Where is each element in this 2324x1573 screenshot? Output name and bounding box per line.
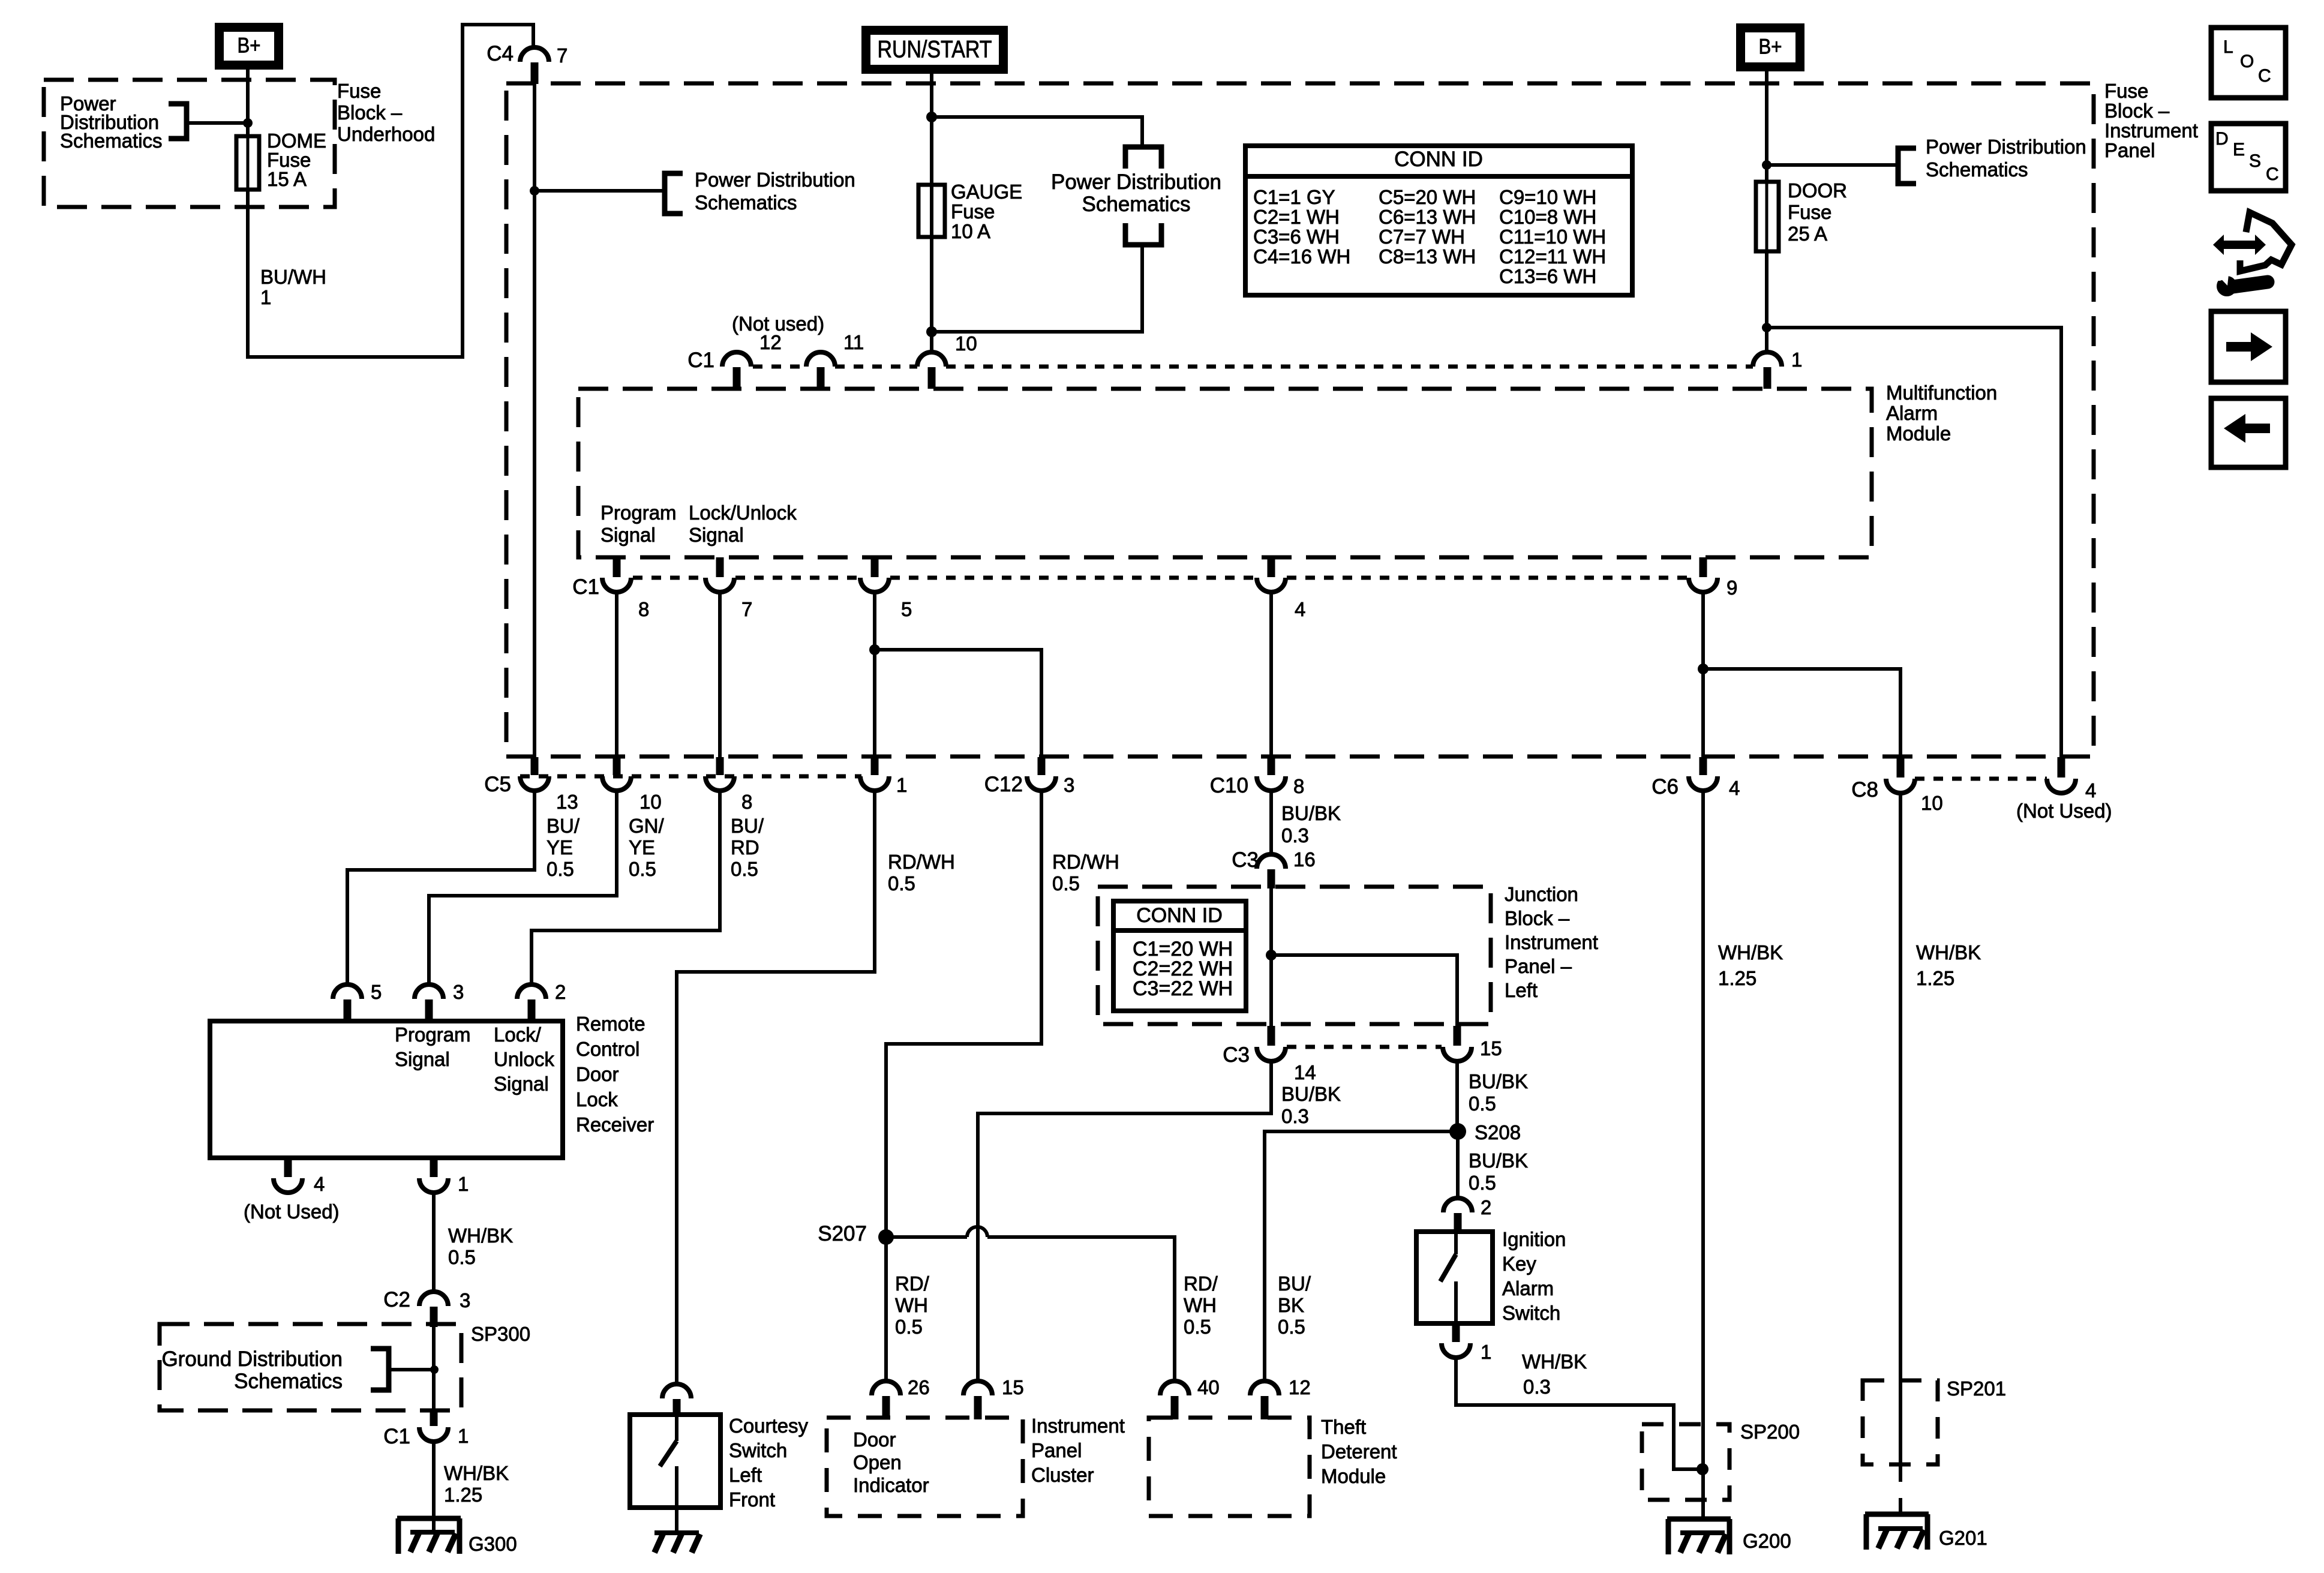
svg-text:Fuse: Fuse: [337, 80, 381, 102]
svg-text:Schematics: Schematics: [234, 1370, 343, 1393]
wire loop bottom: [932, 245, 1142, 332]
fuse block instrument panel dashed box: [506, 83, 2094, 757]
svg-text:Left: Left: [1505, 979, 1538, 1001]
svg-text:2: 2: [1481, 1196, 1491, 1218]
svg-text:12: 12: [759, 331, 782, 353]
remote control door lock receiver box: [210, 1021, 563, 1158]
svg-text:15 A: 15 A: [267, 168, 307, 190]
svg-text:Signal: Signal: [600, 524, 656, 546]
wire S208 branch to theft pin 12: [1265, 1131, 1458, 1381]
svg-text:C2: C2: [383, 1288, 410, 1311]
ground (courtesy switch): [654, 1530, 699, 1535]
connector pin 4 not used: [2058, 757, 2065, 778]
ground G201: [1865, 1512, 1929, 1517]
wire C5 pin10 to receiver pin 3: [429, 791, 617, 985]
svg-text:BU/WH: BU/WH: [260, 266, 326, 288]
svg-text:Alarm: Alarm: [1886, 402, 1938, 424]
svg-text:WH: WH: [1184, 1294, 1217, 1316]
wire C5 pin8 to receiver pin 2: [532, 791, 720, 985]
svg-text:14: 14: [1294, 1061, 1316, 1083]
svg-text:1: 1: [458, 1425, 469, 1447]
svg-text:13: 13: [556, 791, 578, 813]
svg-text:C8=13 WH: C8=13 WH: [1379, 245, 1476, 268]
module pin 9: [1700, 557, 1707, 577]
svg-text:Remote: Remote: [576, 1013, 645, 1035]
bracket ground distribution: [371, 1349, 389, 1390]
svg-text:1: 1: [1791, 349, 1802, 371]
wire C6 pin4 to G200: [1701, 791, 1705, 1519]
wire DOOR fuse to pin 1: [1765, 251, 1768, 353]
multifunction alarm module dashed box: [578, 389, 1872, 557]
conn id table (fuse block): [1245, 146, 1632, 295]
svg-text:WH/BK: WH/BK: [1522, 1350, 1587, 1373]
svg-text:C3: C3: [1223, 1043, 1250, 1067]
svg-text:26: 26: [908, 1376, 930, 1398]
svg-text:G201: G201: [1939, 1527, 1987, 1549]
svg-text:1.25: 1.25: [1718, 967, 1756, 989]
svg-text:BU/: BU/: [1278, 1272, 1311, 1295]
junction block dashed box: [1098, 887, 1491, 1024]
svg-text:C5: C5: [484, 773, 511, 796]
wire through SP300: [432, 1327, 436, 1409]
wire C8 pin10 to G201: [1899, 793, 1902, 1482]
svg-text:RD/: RD/: [895, 1272, 930, 1295]
wire DOME fuse to connector C4 pin 7: [248, 25, 533, 357]
icon box LOC: [2211, 28, 2286, 98]
svg-text:C11=10 WH: C11=10 WH: [1499, 226, 1606, 248]
svg-text:CONN ID: CONN ID: [1136, 904, 1223, 927]
svg-text:5: 5: [901, 598, 912, 620]
wire C10 pin8 down to C3 pin16: [1269, 791, 1273, 855]
svg-text:0.5: 0.5: [895, 1316, 923, 1338]
junction dot SP300: [430, 1365, 439, 1374]
svg-text:BU/BK: BU/BK: [1469, 1070, 1528, 1092]
svg-text:0.5: 0.5: [629, 858, 656, 880]
svg-text:BK: BK: [1278, 1294, 1304, 1316]
junction dot on B+ feed: [243, 118, 253, 128]
svg-text:1: 1: [896, 774, 907, 796]
svg-text:0.5: 0.5: [1278, 1316, 1305, 1338]
bracket power distribution (right): [1898, 148, 1916, 184]
connector pin 15 (junction block): [1454, 1026, 1461, 1046]
theft pin 40: [1160, 1381, 1189, 1395]
svg-text:0.5: 0.5: [547, 858, 574, 880]
svg-text:2: 2: [555, 981, 566, 1003]
svg-text:Block –: Block –: [2104, 100, 2170, 122]
ignition switch contacts: [1454, 1232, 1458, 1254]
connector C12 pin 3: [1038, 757, 1046, 775]
svg-text:(Not Used): (Not Used): [2016, 800, 2112, 822]
svg-text:Signal: Signal: [395, 1048, 450, 1070]
svg-text:Left: Left: [729, 1464, 762, 1486]
svg-text:25 A: 25 A: [1788, 223, 1827, 245]
junction dot in junction block: [1266, 950, 1277, 960]
wire C12 pin3 to S207: [886, 791, 1041, 1381]
svg-text:Schematics: Schematics: [1082, 193, 1191, 216]
svg-text:RD/: RD/: [1184, 1272, 1218, 1295]
svg-text:Alarm: Alarm: [1502, 1277, 1554, 1299]
svg-text:GAUGE: GAUGE: [951, 181, 1022, 203]
wire S207 to theft pin 40 (with hop): [886, 1235, 967, 1239]
svg-text:WH: WH: [895, 1294, 928, 1316]
svg-text:Module: Module: [1321, 1465, 1386, 1487]
junction dot DOOR branch: [1762, 323, 1771, 332]
svg-text:Switch: Switch: [729, 1439, 787, 1461]
svg-text:C8: C8: [1851, 778, 1878, 801]
svg-text:0.3: 0.3: [1281, 824, 1309, 846]
connector C4 pin 7 arc: [520, 47, 549, 62]
svg-text:Lock/: Lock/: [494, 1023, 542, 1046]
svg-text:SP201: SP201: [1947, 1377, 2006, 1400]
connector C1 pin 11 arc: [806, 352, 835, 367]
dotted connector line C1 row: [753, 365, 806, 369]
svg-text:0.5: 0.5: [1052, 872, 1080, 894]
svg-text:C1: C1: [572, 575, 599, 599]
svg-text:S208: S208: [1475, 1121, 1521, 1143]
svg-text:D: D: [2215, 129, 2229, 149]
receiver pin 1: [430, 1158, 438, 1177]
svg-text:RD: RD: [731, 836, 759, 858]
svg-text:10: 10: [955, 332, 977, 355]
svg-text:C13=6 WH: C13=6 WH: [1499, 265, 1596, 287]
svg-text:1: 1: [260, 286, 271, 308]
ground G300: [397, 1516, 461, 1521]
svg-text:C7=7 WH: C7=7 WH: [1379, 226, 1465, 248]
wire branch to not-used pin 4: [1767, 328, 2061, 757]
connector C6 pin 4: [1700, 757, 1707, 775]
svg-text:10: 10: [1921, 792, 1943, 814]
svg-text:C12: C12: [984, 773, 1023, 796]
svg-text:10 A: 10 A: [951, 220, 990, 242]
icon box arrow right: [2211, 311, 2286, 382]
power symbol B+ (instrument panel): [1741, 28, 1800, 67]
icon box arrow left: [2211, 398, 2286, 467]
svg-text:Deterent: Deterent: [1321, 1440, 1397, 1463]
svg-text:YE: YE: [629, 836, 655, 858]
module pin 4: [1268, 557, 1275, 577]
icon wrench and arrows: [2213, 235, 2266, 255]
fuse DOME 15 A: [236, 136, 259, 190]
wire B+ down to fuse DOME: [246, 70, 250, 136]
svg-text:O: O: [2240, 52, 2254, 71]
svg-text:Receiver: Receiver: [576, 1113, 654, 1136]
wire to power distribution bracket (right): [1767, 163, 1898, 167]
dotted connector line module bottom row: [633, 576, 704, 580]
ignition switch pin 2: [1443, 1198, 1472, 1212]
svg-text:B+: B+: [1759, 35, 1782, 59]
svg-text:C: C: [2266, 164, 2279, 184]
connector C8 pin 10: [1897, 757, 1905, 778]
svg-text:0.5: 0.5: [1469, 1092, 1496, 1115]
svg-text:Lock: Lock: [576, 1088, 618, 1110]
svg-text:10: 10: [639, 791, 662, 813]
wire C5 pin13 to receiver pin 5: [347, 791, 535, 985]
receiver pin 4 (not used): [284, 1158, 292, 1177]
connector C1 pin 1 arc: [1753, 352, 1782, 367]
svg-text:WH/BK: WH/BK: [444, 1462, 509, 1484]
wire pin14 to cluster pin 15: [978, 1061, 1271, 1381]
svg-text:Program: Program: [600, 502, 677, 524]
icon box DESC: [2211, 124, 2286, 191]
svg-text:RD/WH: RD/WH: [888, 851, 955, 873]
wire bracket to node: [187, 121, 248, 125]
svg-text:Fuse: Fuse: [2104, 80, 2148, 102]
svg-text:Panel –: Panel –: [1505, 955, 1572, 977]
svg-text:Cluster: Cluster: [1031, 1464, 1094, 1486]
wire branch to pin 15: [1271, 955, 1457, 1026]
svg-text:Lock/Unlock: Lock/Unlock: [689, 502, 797, 524]
svg-text:Theft: Theft: [1321, 1416, 1366, 1438]
svg-text:15: 15: [1480, 1037, 1502, 1059]
svg-text:Instrument: Instrument: [1505, 931, 1598, 953]
svg-text:Power Distribution: Power Distribution: [1051, 170, 1221, 194]
svg-text:0.5: 0.5: [448, 1246, 476, 1268]
svg-text:L: L: [2223, 37, 2233, 57]
svg-text:SP200: SP200: [1740, 1421, 1800, 1443]
door open indicator dashed box: [827, 1418, 1023, 1516]
dotted line C5 row: [520, 775, 861, 779]
svg-text:7: 7: [741, 598, 752, 620]
svg-text:Underhood: Underhood: [337, 123, 435, 145]
svg-text:C1: C1: [383, 1425, 410, 1448]
svg-text:Door: Door: [853, 1428, 896, 1451]
svg-text:C1: C1: [687, 349, 714, 372]
svg-text:1: 1: [1481, 1341, 1491, 1363]
svg-text:G200: G200: [1743, 1530, 1791, 1552]
svg-text:C6=13 WH: C6=13 WH: [1379, 206, 1476, 228]
svg-text:RUN/START: RUN/START: [878, 36, 992, 62]
svg-text:Ignition: Ignition: [1502, 1228, 1566, 1250]
power symbol B+ (underhood): [220, 28, 279, 65]
wire to G300: [432, 1442, 436, 1533]
svg-text:Door: Door: [576, 1063, 619, 1085]
junction dot C4 branch: [530, 186, 539, 196]
junction dot SP200: [1697, 1463, 1709, 1475]
svg-text:4: 4: [2085, 779, 2096, 801]
svg-text:SP300: SP300: [471, 1323, 530, 1345]
connector C4 pin 7 tick: [531, 62, 539, 84]
svg-text:GN/: GN/: [629, 815, 665, 837]
svg-text:0.5: 0.5: [731, 858, 758, 880]
svg-text:C4=16 WH: C4=16 WH: [1253, 245, 1350, 268]
fuse block underhood dashed box: [44, 80, 335, 207]
svg-text:BU/BK: BU/BK: [1281, 1083, 1341, 1105]
svg-text:S207: S207: [818, 1222, 867, 1245]
junction S208: [1449, 1123, 1466, 1140]
splice pack SP300 dashed box: [160, 1324, 461, 1410]
wire to power distribution bracket (left): [535, 189, 665, 193]
svg-text:0.5: 0.5: [888, 872, 915, 894]
theft deterrent module dashed box: [1149, 1418, 1310, 1516]
svg-text:C10=8 WH: C10=8 WH: [1499, 206, 1596, 228]
svg-text:Switch: Switch: [1502, 1302, 1560, 1324]
wire bracket to SP300 node: [389, 1368, 434, 1371]
connector C1 pin 10 arc: [917, 352, 946, 367]
svg-text:8: 8: [638, 598, 649, 620]
svg-text:C4: C4: [487, 42, 514, 65]
svg-text:8: 8: [1293, 775, 1304, 797]
wire module pin 5 to C5 pin 1: [873, 592, 876, 757]
svg-text:Block –: Block –: [337, 101, 403, 124]
svg-text:1.25: 1.25: [444, 1484, 482, 1506]
svg-text:WH/BK: WH/BK: [1916, 941, 1981, 963]
fuse GAUGE 10 A: [918, 185, 945, 237]
svg-text:4: 4: [1295, 598, 1305, 620]
conn id table (junction block): [1113, 901, 1246, 1011]
svg-text:12: 12: [1289, 1376, 1311, 1398]
svg-text:Front: Front: [729, 1488, 775, 1511]
connector C5 pin 8: [716, 757, 724, 775]
svg-text:S: S: [2249, 151, 2261, 171]
wire C4 pin7 down to C5 pin13: [533, 84, 536, 757]
svg-text:0.5: 0.5: [1469, 1172, 1496, 1194]
dotted line C8 row: [1915, 777, 2047, 781]
svg-text:Signal: Signal: [689, 524, 744, 546]
svg-text:Instrument: Instrument: [1031, 1415, 1125, 1437]
svg-text:40: 40: [1197, 1376, 1220, 1398]
junction S207: [878, 1229, 894, 1245]
svg-text:0.3: 0.3: [1281, 1105, 1309, 1127]
svg-text:Panel: Panel: [2104, 139, 2155, 161]
wire module pin 8 to C5 pin 10: [615, 592, 618, 757]
svg-text:Power Distribution: Power Distribution: [1926, 136, 2086, 158]
svg-text:7: 7: [557, 44, 568, 67]
svg-text:Module: Module: [1886, 422, 1951, 445]
svg-text:C5=20 WH: C5=20 WH: [1379, 186, 1476, 208]
svg-text:C12=11 WH: C12=11 WH: [1499, 245, 1606, 268]
svg-text:C10: C10: [1210, 774, 1248, 797]
svg-text:16: 16: [1293, 848, 1316, 870]
svg-text:Signal: Signal: [494, 1073, 549, 1095]
wire loop to power distribution (middle): [932, 117, 1142, 145]
bracket to power distribution (underhood): [169, 104, 187, 139]
junction dot RUN/START bottom: [926, 326, 937, 337]
svg-text:Indicator: Indicator: [853, 1474, 929, 1496]
svg-text:Fuse: Fuse: [951, 200, 995, 223]
connector C5 pin 1: [871, 757, 879, 775]
splice pack SP201 dashed box: [1863, 1380, 1938, 1464]
svg-text:9: 9: [1727, 577, 1737, 599]
svg-text:3: 3: [453, 981, 464, 1003]
splice pack SP200 dashed box: [1642, 1424, 1730, 1500]
ground G200: [1667, 1517, 1731, 1522]
wire B+ down to DOOR fuse: [1765, 71, 1768, 182]
svg-text:Panel: Panel: [1031, 1439, 1082, 1461]
door open indicator pin 26: [872, 1381, 900, 1395]
junction dot RUN/START top: [926, 112, 937, 122]
svg-text:Block –: Block –: [1505, 907, 1570, 929]
wire C5 pin1 to courtesy switch: [677, 791, 875, 1384]
wire module pin 7 to C5 pin 8: [718, 592, 722, 757]
fuse DOOR 25 A: [1756, 182, 1779, 251]
svg-text:WH/BK: WH/BK: [448, 1224, 513, 1247]
courtesy switch contacts: [675, 1415, 678, 1441]
svg-text:BU/BK: BU/BK: [1281, 802, 1341, 824]
svg-text:E: E: [2233, 140, 2245, 160]
junction dot B+ branch: [1762, 160, 1771, 170]
svg-text:B+: B+: [238, 34, 261, 58]
svg-text:Fuse: Fuse: [1788, 201, 1831, 223]
svg-text:(Not Used): (Not Used): [244, 1200, 340, 1223]
courtesy switch connector arc: [662, 1384, 691, 1398]
svg-text:Key: Key: [1502, 1253, 1536, 1275]
theft pin 12: [1250, 1381, 1279, 1395]
wire module pin 9 to C6 pin 4: [1701, 592, 1705, 757]
courtesy switch box: [630, 1415, 720, 1508]
svg-text:8: 8: [741, 791, 752, 813]
svg-text:CONN ID: CONN ID: [1394, 148, 1483, 171]
svg-text:Open: Open: [853, 1451, 902, 1473]
wire receiver pin 1 down: [432, 1193, 436, 1293]
door open indicator pin 15 wire arc: [963, 1381, 992, 1395]
svg-text:Multifunction: Multifunction: [1886, 382, 1997, 404]
wire pin15 to S208: [1455, 1061, 1459, 1131]
receiver pin 2: [517, 984, 546, 999]
svg-text:BU/: BU/: [547, 815, 580, 837]
svg-text:4: 4: [1729, 777, 1740, 799]
svg-text:Instrument: Instrument: [2104, 119, 2198, 142]
svg-text:0.3: 0.3: [1523, 1376, 1551, 1398]
receiver pin 3: [415, 984, 443, 999]
wire RUN/START down to pin 10: [930, 72, 933, 353]
svg-text:WH/BK: WH/BK: [1718, 941, 1783, 963]
bracket bottom (pd middle): [1125, 223, 1161, 245]
junction dot pin9 branch: [1698, 664, 1709, 674]
wire courtesy switch to ground: [675, 1508, 678, 1533]
svg-text:0.5: 0.5: [1184, 1316, 1211, 1338]
svg-text:15: 15: [1002, 1376, 1024, 1398]
svg-text:C3=6 WH: C3=6 WH: [1253, 226, 1340, 248]
wire S208 down to ignition switch: [1456, 1131, 1460, 1198]
svg-text:3: 3: [460, 1289, 470, 1311]
svg-text:BU/: BU/: [731, 815, 764, 837]
svg-text:Junction: Junction: [1505, 883, 1578, 905]
junction dot pin5 branch: [869, 644, 880, 655]
svg-text:C6: C6: [1652, 775, 1679, 798]
bracket top (pd middle): [1125, 147, 1161, 169]
svg-text:C9=10 WH: C9=10 WH: [1499, 186, 1596, 208]
svg-text:Program: Program: [395, 1023, 471, 1046]
svg-text:4: 4: [314, 1173, 325, 1195]
connector C5 pin 10: [613, 757, 621, 775]
connector C1 pin 12 arc: [722, 352, 751, 367]
svg-text:Control: Control: [576, 1038, 639, 1060]
ignition key alarm switch box: [1416, 1232, 1493, 1323]
dotted line C3 row: [1287, 1045, 1442, 1049]
wire branch to C12 pin 3: [875, 650, 1041, 757]
wire C3 16 through junction block: [1269, 888, 1273, 1026]
connector C10 pin 8: [1268, 757, 1275, 775]
svg-text:Schematics: Schematics: [695, 191, 797, 214]
svg-text:Schematics: Schematics: [1926, 158, 2028, 181]
svg-text:C3=22 WH: C3=22 WH: [1133, 977, 1233, 1000]
svg-text:G300: G300: [469, 1533, 517, 1555]
svg-text:Courtesy: Courtesy: [729, 1415, 809, 1437]
svg-text:1.25: 1.25: [1916, 967, 1954, 989]
ignition switch pin 1: [1452, 1323, 1460, 1342]
bracket power distribution (ip left): [665, 173, 683, 214]
receiver pin 5: [333, 984, 362, 999]
wire branch to C8 pin 10: [1703, 669, 1900, 757]
power symbol RUN/START: [866, 31, 1004, 70]
svg-text:1: 1: [458, 1173, 469, 1195]
svg-text:RD/WH: RD/WH: [1052, 851, 1119, 873]
svg-text:Schematics: Schematics: [60, 130, 163, 152]
svg-text:Unlock: Unlock: [494, 1048, 554, 1070]
svg-text:11: 11: [843, 331, 864, 353]
svg-text:YE: YE: [547, 836, 573, 858]
connector C5 pin 13: [531, 757, 539, 775]
